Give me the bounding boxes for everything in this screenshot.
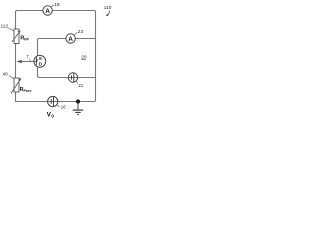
svg-text:FP: FP	[24, 37, 29, 41]
svg-text:40: 40	[3, 71, 9, 77]
svg-text:A: A	[68, 36, 73, 43]
svg-text:18: 18	[54, 2, 60, 8]
svg-text:23: 23	[78, 29, 84, 35]
svg-text:7: 7	[26, 54, 29, 59]
svg-text:112: 112	[1, 24, 9, 30]
svg-text:A: A	[45, 8, 50, 15]
svg-text:0: 0	[51, 114, 54, 119]
svg-text:Pore: Pore	[24, 89, 32, 93]
svg-text:16: 16	[61, 104, 67, 109]
svg-text:S: S	[39, 56, 42, 61]
svg-text:110: 110	[104, 5, 112, 11]
svg-text:21: 21	[78, 83, 84, 88]
